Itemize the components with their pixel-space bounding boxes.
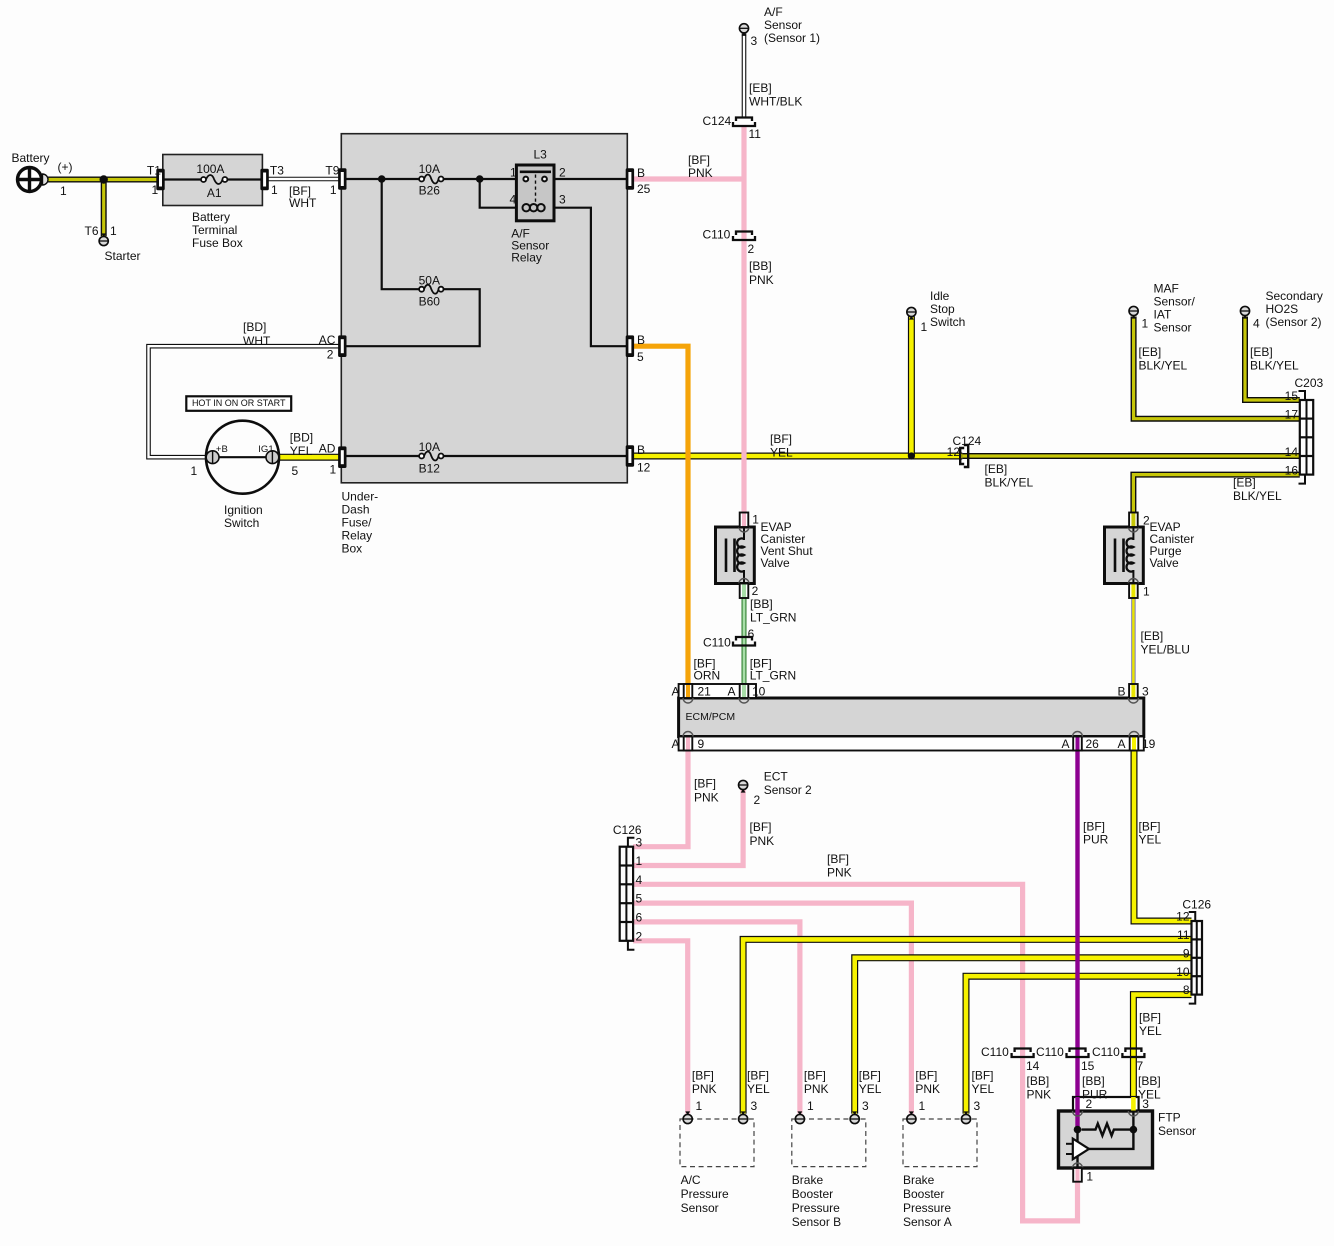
svg-text:9: 9 <box>698 737 705 751</box>
svg-text:YEL: YEL <box>747 1082 770 1096</box>
ECM pin A10 <box>740 684 749 698</box>
wire: ORN B5 to ECM A21 <box>627 346 688 684</box>
wire: relay pin3 to B5 <box>554 208 627 347</box>
svg-text:[EB]: [EB] <box>1141 629 1164 643</box>
wire: YEL ignition IG1 to AD <box>279 454 342 461</box>
svg-text:WHT: WHT <box>243 334 271 348</box>
wire: fuse box A1 row <box>163 178 201 180</box>
svg-text:C110: C110 <box>1036 1045 1064 1059</box>
svg-text:Pressure: Pressure <box>792 1201 840 1215</box>
svg-text:1: 1 <box>330 462 337 476</box>
svg-text:16: 16 <box>1285 463 1299 477</box>
brake booster pressure sensor A dashed box <box>903 1119 977 1167</box>
svg-text:15: 15 <box>1081 1059 1095 1073</box>
svg-text:Sensor/: Sensor/ <box>1154 294 1196 308</box>
svg-text:9: 9 <box>1183 946 1190 960</box>
svg-text:MAF: MAF <box>1154 281 1179 295</box>
svg-text:YEL: YEL <box>770 445 793 459</box>
svg-text:21: 21 <box>698 684 712 698</box>
ECM pin A26 <box>1073 737 1082 751</box>
svg-text:Pressure: Pressure <box>681 1187 729 1201</box>
svg-text:HOT IN ON OR START: HOT IN ON OR START <box>192 398 286 408</box>
svg-text:AC: AC <box>319 333 336 347</box>
svg-text:3: 3 <box>1142 1097 1149 1111</box>
connector T9 <box>338 168 346 190</box>
svg-text:Sensor 2: Sensor 2 <box>764 783 812 797</box>
booster A pin3 terminal <box>961 1114 970 1123</box>
svg-text:4: 4 <box>1253 316 1260 330</box>
svg-text:14: 14 <box>1285 445 1299 459</box>
svg-text:YEL: YEL <box>290 444 313 458</box>
svg-text:14: 14 <box>1026 1059 1040 1073</box>
booster B pin3 terminal <box>850 1114 859 1123</box>
svg-text:Secondary: Secondary <box>1266 289 1323 303</box>
svg-text:LT_GRN: LT_GRN <box>750 610 796 624</box>
svg-text:Stop: Stop <box>930 302 955 316</box>
svg-text:11: 11 <box>1177 928 1190 942</box>
connector C126 right <box>1192 921 1203 995</box>
svg-text:PNK: PNK <box>688 166 713 180</box>
svg-text:T6: T6 <box>85 224 99 238</box>
svg-text:A: A <box>1062 737 1070 751</box>
svg-text:3: 3 <box>1142 684 1149 698</box>
svg-text:2: 2 <box>754 793 761 807</box>
A/C sensor pin1 terminal <box>683 1114 692 1123</box>
svg-text:C110: C110 <box>703 635 731 649</box>
svg-text:Switch: Switch <box>930 315 965 329</box>
ECM pin A21 <box>684 684 693 698</box>
svg-text:[BB]: [BB] <box>1082 1074 1105 1088</box>
connector C203 <box>1300 400 1313 475</box>
connector C110-6 <box>736 637 752 641</box>
svg-text:3: 3 <box>974 1099 981 1113</box>
svg-text:4: 4 <box>510 193 517 207</box>
svg-text:PNK: PNK <box>750 834 775 848</box>
HOT IN ON OR START box <box>186 396 291 411</box>
svg-text:C203: C203 <box>1295 376 1324 390</box>
wire: BLK/YEL secondary HO2S to C203 pin15 <box>1245 317 1300 401</box>
fuse A1 100A <box>206 175 223 184</box>
svg-text:2: 2 <box>636 929 643 943</box>
ECM bottom strip <box>679 737 1144 751</box>
FTP internal resistor <box>1082 1124 1131 1136</box>
svg-text:B: B <box>1118 684 1126 698</box>
svg-text:12: 12 <box>637 460 651 474</box>
svg-text:Brake: Brake <box>792 1173 824 1187</box>
svg-text:IG1: IG1 <box>258 444 273 455</box>
wire: WHT AC to ignition switch +B <box>149 346 342 457</box>
svg-text:Sensor: Sensor <box>1158 1124 1196 1138</box>
wire: PNK C126 pin2 to A/C pressure sensor pin1 <box>633 941 688 1114</box>
wire: under-dash top row T9 to relay pin1 <box>341 178 419 180</box>
svg-text:Sensor: Sensor <box>1154 320 1192 334</box>
A/C sensor pin3 terminal <box>739 1114 748 1123</box>
wire: WHT/BLK A/F sensor to C124-11 <box>742 33 747 117</box>
wire: BLK/YEL battery to T1 with starter branch <box>44 177 163 183</box>
svg-text:L3: L3 <box>534 147 548 161</box>
wire: PUR ECM A26 to FTP pin2 <box>1075 751 1079 1099</box>
svg-text:Dash: Dash <box>342 502 370 516</box>
svg-text:3: 3 <box>559 193 566 207</box>
ECT sensor 2 terminal <box>739 780 748 789</box>
svg-text:15: 15 <box>1285 389 1299 403</box>
wire: junction to relay pin4 <box>480 179 517 208</box>
svg-text:3: 3 <box>751 1099 758 1113</box>
svg-text:Booster: Booster <box>903 1187 944 1201</box>
ECM/PCM box <box>679 698 1144 737</box>
connector T3 <box>260 169 268 191</box>
ECM pin A19 <box>1130 737 1139 751</box>
svg-text:PNK: PNK <box>694 790 719 804</box>
svg-text:2: 2 <box>748 242 755 256</box>
svg-text:B12: B12 <box>419 461 441 475</box>
svg-text:[BB]: [BB] <box>1138 1074 1161 1088</box>
svg-text:Idle: Idle <box>930 289 950 303</box>
svg-text:Sensor B: Sensor B <box>792 1215 841 1229</box>
junction dot x381.7 <box>378 175 386 183</box>
connector C126 left <box>620 847 633 941</box>
svg-text:Box: Box <box>342 541 363 555</box>
svg-text:PUR: PUR <box>1083 832 1109 846</box>
svg-text:ECT: ECT <box>764 769 789 783</box>
svg-text:T3: T3 <box>270 163 284 177</box>
svg-text:Switch: Switch <box>224 516 259 530</box>
svg-text:[BF]: [BF] <box>827 852 849 866</box>
A/F sensor (sensor 1) terminal <box>739 24 748 33</box>
MAF/IAT sensor terminal <box>1129 306 1138 315</box>
svg-text:T9: T9 <box>325 163 339 177</box>
purge valve pin2 <box>1129 513 1138 528</box>
svg-text:3: 3 <box>751 34 758 48</box>
svg-text:11: 11 <box>749 127 762 141</box>
svg-text:Brake: Brake <box>903 1173 935 1187</box>
svg-text:50A: 50A <box>419 273 440 287</box>
wire: LT_GRN vent shut valve pin2 to ECM A10 <box>742 598 747 684</box>
wire: WHT T3 to T9 <box>262 177 341 182</box>
wire: YEL C126R pin10 to brake booster A pin3 <box>966 976 1192 1113</box>
connector C110-2 <box>736 232 752 236</box>
secondary HO2S terminal <box>1240 306 1249 315</box>
junction idle stop / main yellow row <box>908 452 915 459</box>
svg-text:A: A <box>672 684 680 698</box>
svg-text:[BF]: [BF] <box>804 1069 826 1083</box>
svg-text:1: 1 <box>60 184 67 198</box>
svg-text:Relay: Relay <box>511 251 542 265</box>
svg-text:ORN: ORN <box>694 668 721 682</box>
svg-text:C110: C110 <box>1092 1045 1120 1059</box>
wire: PNK ECT sensor2 to C126 pin1 <box>633 790 743 866</box>
svg-text:12: 12 <box>947 445 961 459</box>
svg-text:Booster: Booster <box>792 1187 833 1201</box>
svg-text:BLK/YEL: BLK/YEL <box>1139 358 1188 372</box>
svg-text:[BB]: [BB] <box>1027 1074 1050 1088</box>
svg-text:C124: C124 <box>703 114 732 128</box>
svg-text:Fuse Box: Fuse Box <box>192 236 243 250</box>
FTP sensor box <box>1059 1097 1153 1168</box>
svg-text:IAT: IAT <box>1154 307 1172 321</box>
svg-text:[BB]: [BB] <box>750 597 773 611</box>
svg-text:YEL: YEL <box>1139 832 1162 846</box>
fuse B60 50A <box>424 285 439 294</box>
wire: PNK C126 pin5 to brake booster sensor A pin1 <box>633 903 911 1114</box>
connector B-5 <box>626 335 634 357</box>
connector C110-15 <box>1070 1049 1086 1053</box>
svg-text:PNK: PNK <box>804 1082 829 1096</box>
svg-text:PNK: PNK <box>827 865 852 879</box>
svg-text:ECM/PCM: ECM/PCM <box>686 711 736 723</box>
svg-text:YEL: YEL <box>972 1082 995 1096</box>
battery symbol <box>18 168 49 192</box>
svg-text:PNK: PNK <box>1027 1087 1052 1101</box>
svg-text:HO2S: HO2S <box>1266 302 1299 316</box>
svg-text:1: 1 <box>510 165 517 179</box>
FTP pin1 <box>1073 1168 1082 1182</box>
battery terminal fuse box <box>163 155 263 206</box>
svg-text:B: B <box>637 333 645 347</box>
svg-text:[BB]: [BB] <box>749 259 772 273</box>
svg-text:1: 1 <box>152 183 159 197</box>
svg-text:Under-: Under- <box>342 489 379 503</box>
svg-text:2: 2 <box>1086 1097 1093 1111</box>
connector AC-2 <box>338 335 346 357</box>
svg-text:10: 10 <box>1176 965 1190 979</box>
svg-text:(+): (+) <box>58 160 73 174</box>
svg-text:1: 1 <box>807 1099 814 1113</box>
svg-text:PNK: PNK <box>692 1082 717 1096</box>
svg-text:1: 1 <box>1142 316 1149 330</box>
svg-text:1: 1 <box>110 224 117 238</box>
svg-text:Valve: Valve <box>1150 556 1179 570</box>
wire: B60 branch to AC <box>382 179 419 289</box>
svg-text:A1: A1 <box>207 186 222 200</box>
svg-text:1: 1 <box>191 464 198 478</box>
svg-text:Relay: Relay <box>342 528 373 542</box>
svg-text:1: 1 <box>271 183 278 197</box>
vent valve pin1 <box>740 513 749 528</box>
wire: BLK/YEL C203 pin16 to purge valve pin2 <box>1133 475 1299 514</box>
connector C110-14 <box>1015 1049 1031 1053</box>
svg-text:BLK/YEL: BLK/YEL <box>1250 358 1299 372</box>
svg-text:26: 26 <box>1086 737 1100 751</box>
svg-text:25: 25 <box>637 182 651 196</box>
svg-text:1: 1 <box>330 183 337 197</box>
starter terminal T6 <box>99 236 108 245</box>
connector C110-7 <box>1125 1049 1141 1053</box>
connector B-25 <box>626 168 634 190</box>
booster A pin1 terminal <box>907 1114 916 1123</box>
svg-text:[BF]: [BF] <box>1083 819 1105 833</box>
fuse B12 10A <box>424 452 439 461</box>
svg-text:10A: 10A <box>419 440 440 454</box>
svg-text:A/F: A/F <box>764 5 783 19</box>
svg-text:[EB]: [EB] <box>1233 475 1256 489</box>
svg-text:[BF]: [BF] <box>859 1069 881 1083</box>
wire: YEL C126R pin8 to FTP pin3 <box>1133 995 1191 1098</box>
svg-text:A: A <box>1118 737 1126 751</box>
svg-text:5: 5 <box>292 464 299 478</box>
connector C124-12 <box>960 448 964 464</box>
svg-text:[BF]: [BF] <box>692 1069 714 1083</box>
svg-text:T1: T1 <box>147 163 161 177</box>
ECM pin A9 <box>684 737 693 751</box>
ECM top header strip <box>679 684 756 698</box>
svg-text:[BD]: [BD] <box>290 430 313 444</box>
svg-text:[BD]: [BD] <box>243 320 266 334</box>
wire: YEL C126R pin11 to A/C pressure sensor pin3 <box>743 939 1191 1113</box>
svg-text:[BF]: [BF] <box>1139 1010 1161 1024</box>
svg-text:Sensor A: Sensor A <box>903 1215 952 1229</box>
relay L3 A/F sensor relay <box>516 165 554 221</box>
svg-text:Battery: Battery <box>192 210 230 224</box>
svg-text:1: 1 <box>1143 584 1150 598</box>
svg-text:WHT/BLK: WHT/BLK <box>749 94 802 108</box>
svg-text:PNK: PNK <box>749 273 774 287</box>
wire: relay pin2 to B25 <box>554 178 627 180</box>
svg-text:Sensor: Sensor <box>681 1201 719 1215</box>
svg-text:[EB]: [EB] <box>1139 345 1162 359</box>
svg-text:1: 1 <box>636 854 643 868</box>
svg-text:Valve: Valve <box>761 556 790 570</box>
wire: YEL main row B12 to C124-12 <box>627 453 962 460</box>
wire: AD row to B12 <box>341 455 419 457</box>
junction dot x479.7 <box>476 175 484 183</box>
svg-text:Sensor: Sensor <box>764 18 802 32</box>
svg-text:[BF]: [BF] <box>915 1069 937 1083</box>
booster B pin1 terminal <box>795 1114 804 1123</box>
wire: PNK B25 to A/F column <box>627 176 744 181</box>
svg-text:Terminal: Terminal <box>192 223 237 237</box>
purge valve pin1 <box>1129 584 1138 599</box>
svg-text:5: 5 <box>637 350 644 364</box>
connector C124-11 <box>736 118 752 122</box>
svg-text:7: 7 <box>1137 1059 1144 1073</box>
svg-text:+B: +B <box>216 444 228 455</box>
svg-text:[EB]: [EB] <box>749 81 772 95</box>
EVAP canister purge valve <box>1105 527 1144 584</box>
svg-text:AD: AD <box>319 441 336 455</box>
wire: YEL/BLU purge valve pin1 to ECM B3 <box>1131 598 1136 684</box>
svg-text:17: 17 <box>1285 408 1299 422</box>
svg-text:PNK: PNK <box>915 1082 940 1096</box>
svg-text:1: 1 <box>921 320 928 334</box>
svg-text:1: 1 <box>696 1099 703 1113</box>
svg-text:Fuse/: Fuse/ <box>342 515 373 529</box>
brake booster pressure sensor B dashed box <box>792 1119 866 1167</box>
svg-text:100A: 100A <box>196 162 224 176</box>
svg-text:2: 2 <box>559 165 566 179</box>
svg-text:YEL/BLU: YEL/BLU <box>1141 642 1190 656</box>
svg-text:[BF]: [BF] <box>688 153 710 167</box>
A/C pressure sensor dashed box <box>680 1119 754 1167</box>
svg-text:BLK/YEL: BLK/YEL <box>985 475 1034 489</box>
svg-text:B60: B60 <box>419 294 441 308</box>
svg-text:2: 2 <box>327 347 334 361</box>
wire: PNK C126 pin4 long run to FTP pin1 <box>633 884 1077 1221</box>
svg-text:C110: C110 <box>981 1045 1009 1059</box>
svg-text:6: 6 <box>636 911 643 925</box>
svg-text:B: B <box>637 443 645 457</box>
svg-text:Battery: Battery <box>12 151 50 165</box>
svg-text:YEL: YEL <box>859 1082 882 1096</box>
svg-text:3: 3 <box>636 835 643 849</box>
svg-text:2: 2 <box>1143 513 1150 527</box>
wire: YEL C126R pin9 to brake booster B pin3 <box>855 958 1192 1114</box>
svg-text:1: 1 <box>919 1099 926 1113</box>
svg-text:LT_GRN: LT_GRN <box>750 668 796 682</box>
svg-text:[BF]: [BF] <box>750 820 772 834</box>
svg-text:YEL: YEL <box>1139 1024 1162 1038</box>
svg-text:A/C: A/C <box>681 1173 701 1187</box>
ECM pin B3 <box>1129 684 1138 698</box>
svg-text:A: A <box>672 737 680 751</box>
svg-text:6: 6 <box>748 627 755 641</box>
idle stop switch terminal <box>907 307 916 316</box>
fuse B26 10A <box>424 175 439 184</box>
svg-text:Ignition: Ignition <box>224 503 263 517</box>
svg-text:1: 1 <box>1086 1169 1093 1183</box>
wire: BLK/YEL MAF sensor to C203 pin17 <box>1134 317 1300 419</box>
svg-text:19: 19 <box>1142 737 1156 751</box>
svg-text:WHT: WHT <box>289 196 317 210</box>
svg-text:5: 5 <box>636 892 643 906</box>
ignition switch <box>206 421 279 494</box>
svg-text:4: 4 <box>636 873 643 887</box>
wire: BLK/YEL C124-12 to C203 pin14 <box>962 453 1300 459</box>
svg-text:[EB]: [EB] <box>985 462 1008 476</box>
connector AD-1 <box>338 446 346 468</box>
wire: PNK ECM A9 to C126 pin3 <box>633 751 688 847</box>
svg-text:[BF]: [BF] <box>1139 819 1161 833</box>
svg-text:3: 3 <box>862 1099 869 1113</box>
svg-text:Pressure: Pressure <box>903 1201 951 1215</box>
svg-text:[BF]: [BF] <box>694 776 716 790</box>
svg-text:FTP: FTP <box>1158 1111 1181 1125</box>
svg-text:2: 2 <box>752 584 759 598</box>
connector B-12 <box>626 445 634 467</box>
svg-text:A: A <box>728 684 736 698</box>
svg-text:C110: C110 <box>703 227 731 241</box>
connector T1 <box>156 169 164 191</box>
svg-text:[EB]: [EB] <box>1250 345 1273 359</box>
svg-text:B26: B26 <box>419 184 441 198</box>
wire: PNK C126 pin6 to brake booster sensor B pin1 <box>633 922 800 1114</box>
svg-text:[BF]: [BF] <box>972 1069 994 1083</box>
wire: PNK A/F column C124-11 down to vent shut valve pin1 <box>741 127 746 513</box>
svg-text:10A: 10A <box>419 162 440 176</box>
svg-text:[BF]: [BF] <box>747 1069 769 1083</box>
vent valve pin2 <box>740 584 749 599</box>
svg-text:BLK/YEL: BLK/YEL <box>1233 489 1282 503</box>
svg-text:B: B <box>637 166 645 180</box>
svg-text:1: 1 <box>752 512 759 526</box>
svg-text:12: 12 <box>1176 910 1190 924</box>
wire: YEL ECM A19 to C126R pin12 <box>1134 751 1192 922</box>
svg-text:(Sensor 1): (Sensor 1) <box>764 31 820 45</box>
svg-text:(Sensor 2): (Sensor 2) <box>1266 315 1322 329</box>
svg-text:Starter: Starter <box>105 249 141 263</box>
svg-text:10: 10 <box>752 684 766 698</box>
wire: YEL idle stop switch vertical <box>908 317 915 457</box>
FTP internal op-amp <box>1073 1139 1089 1160</box>
EVAP canister vent shut valve <box>716 527 755 584</box>
svg-text:8: 8 <box>1183 983 1190 997</box>
under-dash fuse/relay box <box>341 134 627 483</box>
svg-text:[BF]: [BF] <box>770 432 792 446</box>
